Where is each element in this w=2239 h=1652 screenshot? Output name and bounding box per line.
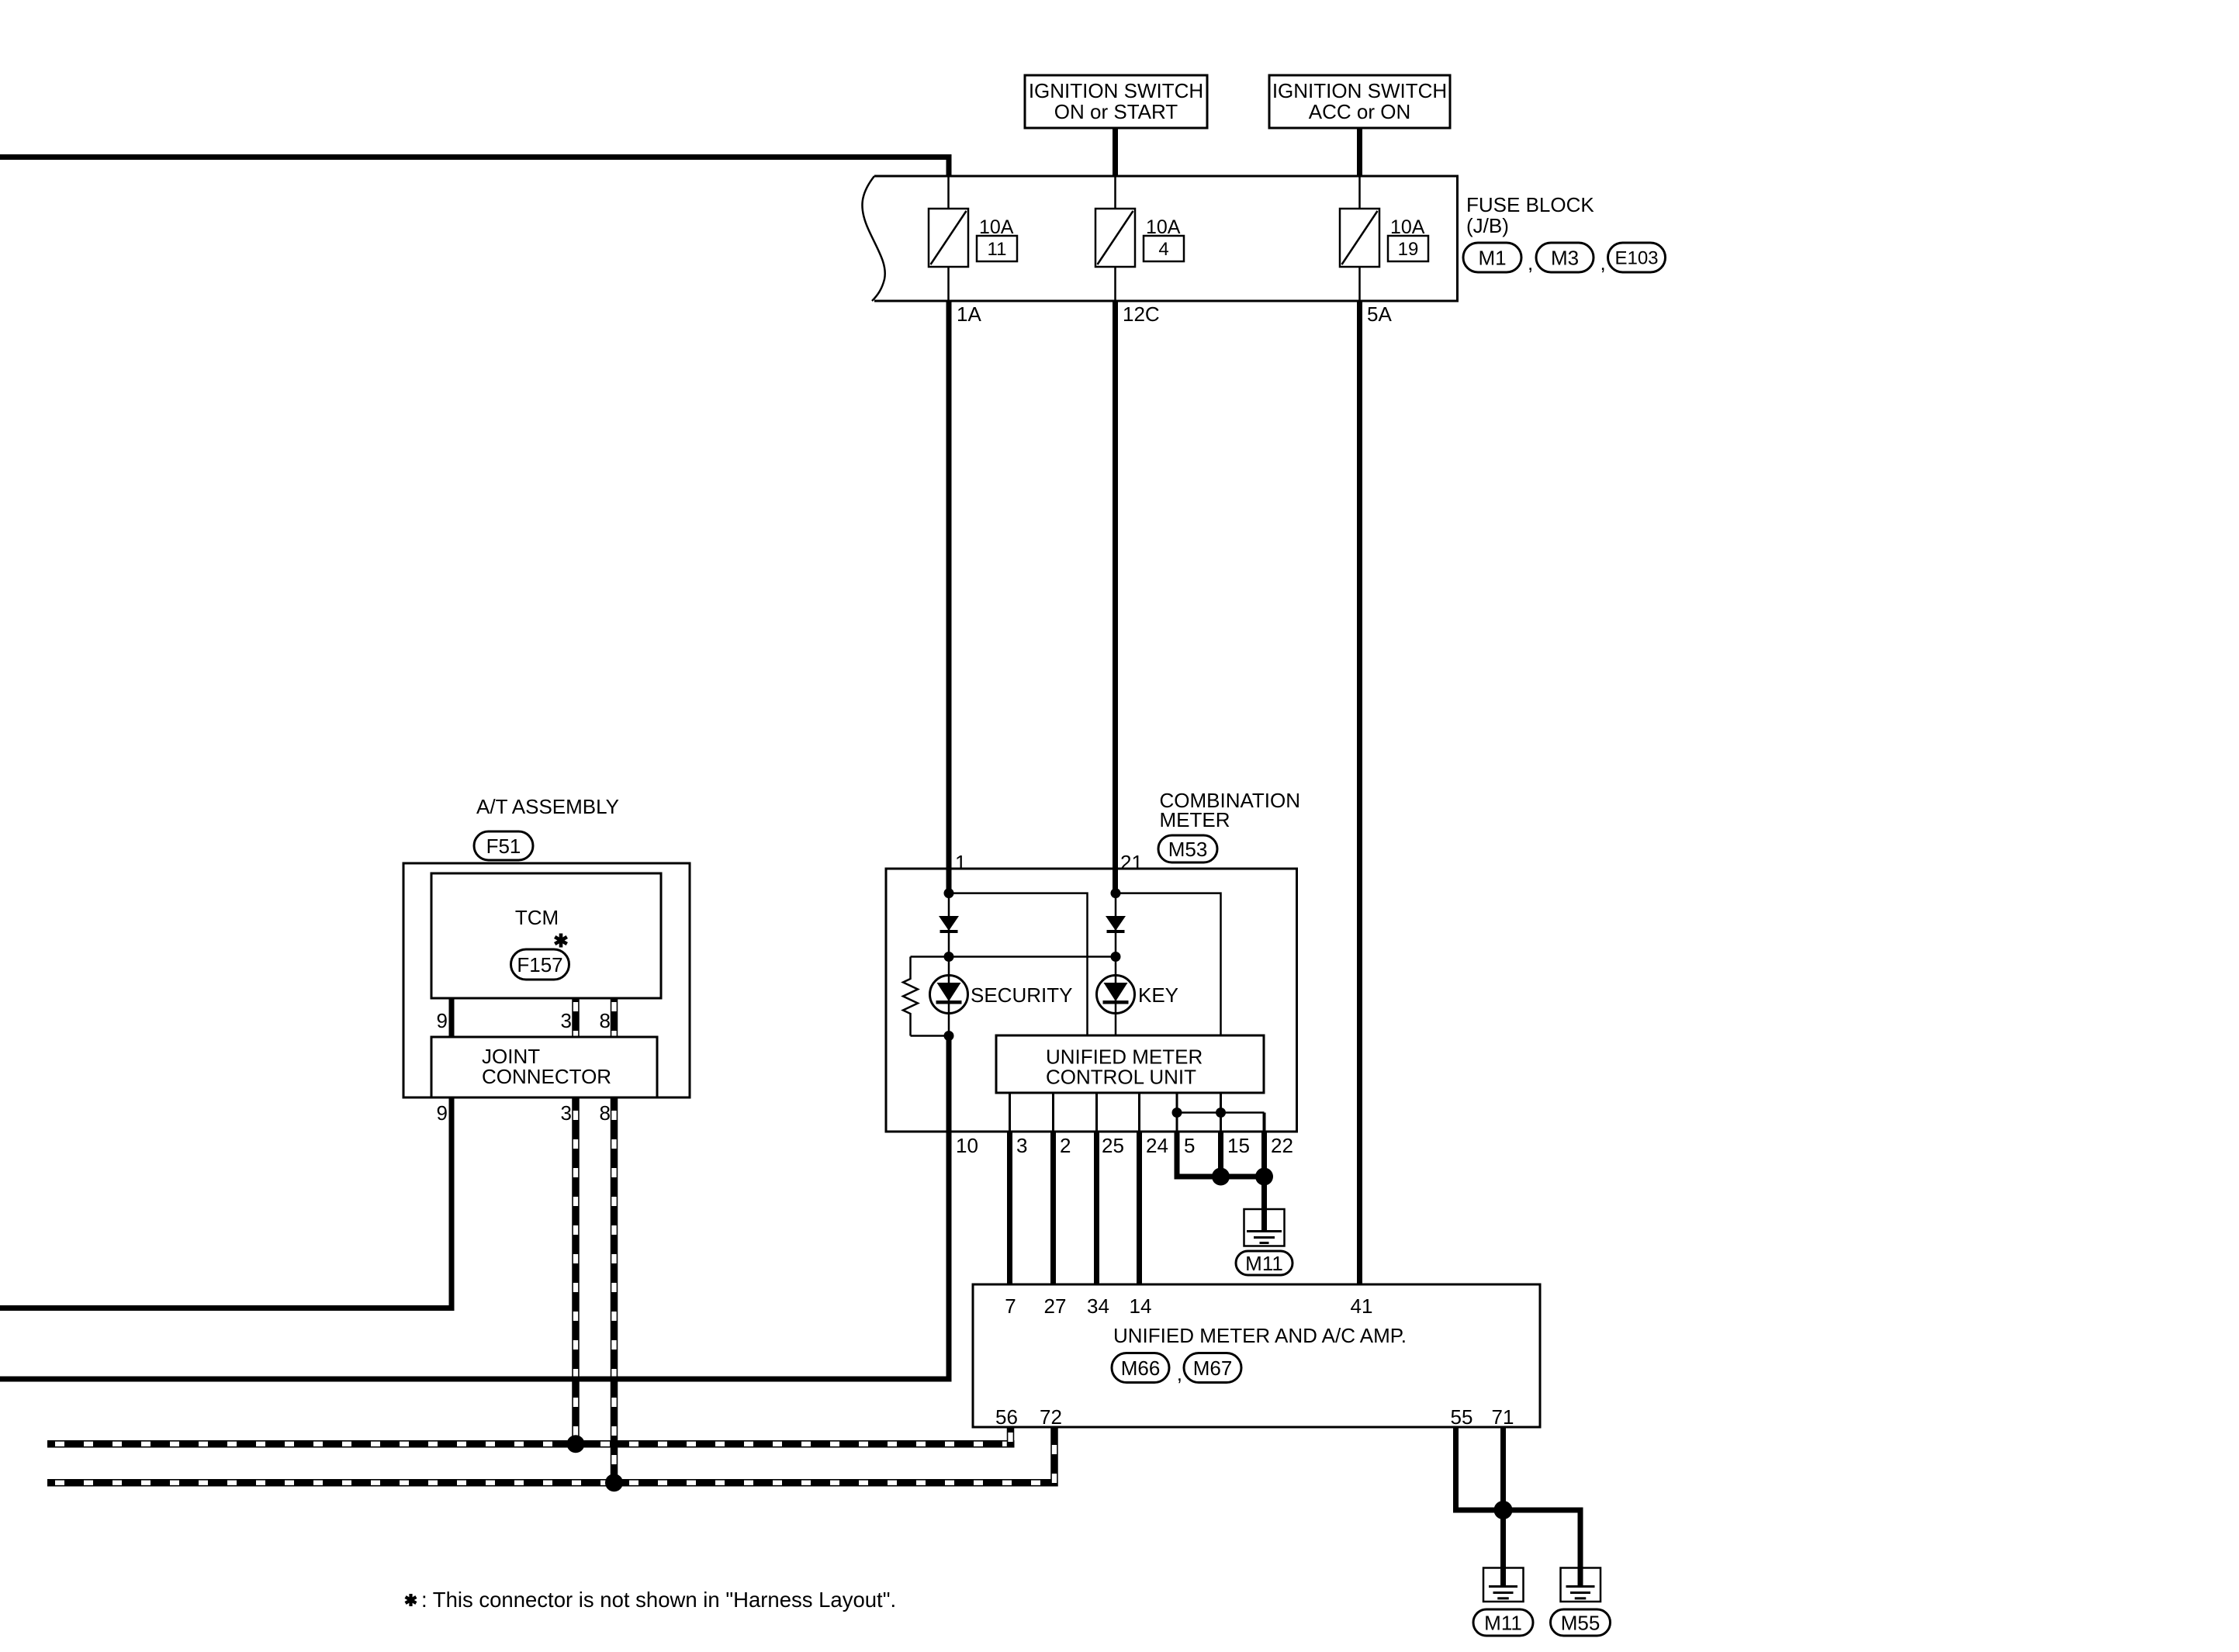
svg-text:M11: M11	[1245, 1252, 1283, 1275]
svg-text:M11: M11	[1484, 1611, 1522, 1634]
svg-text:9: 9	[437, 1101, 448, 1125]
connector M66	[1112, 1353, 1169, 1383]
ignition switch ACC or ON box	[1269, 75, 1450, 128]
ground connector M11 (meter)	[1236, 1251, 1293, 1275]
svg-text:5: 5	[1184, 1134, 1195, 1157]
wire 5A: fuse 19 to unified meter amp pin 41	[1357, 301, 1362, 1284]
ground symbol (meter)	[1244, 1209, 1285, 1246]
svg-text:TCM: TCM	[515, 906, 559, 929]
wire 10: meter pin 10 to left edge	[0, 1132, 952, 1382]
LED SECURITY	[930, 976, 968, 1014]
svg-text:: This connector is not shown: : This connector is not shown in "Harnes…	[421, 1588, 896, 1612]
svg-text:3: 3	[561, 1101, 572, 1125]
svg-text:IGNITION SWITCH: IGNITION SWITCH	[1272, 79, 1447, 102]
wire meter pin2 to amp pin27	[1050, 1132, 1056, 1284]
node: pin5 tap	[1172, 1108, 1182, 1118]
wire pin 56 stub (dashed)	[1007, 1427, 1015, 1448]
label COMBINATION METER	[1160, 789, 1301, 831]
svg-text:2: 2	[1060, 1134, 1071, 1157]
svg-text:METER: METER	[1160, 808, 1230, 831]
wire pin5 to ground bus	[1177, 1132, 1221, 1177]
wire: ground bus to ground M11	[1261, 1177, 1267, 1209]
svg-text:22: 22	[1271, 1134, 1293, 1157]
node: ground bus junction B	[1255, 1168, 1273, 1186]
node: security cathode junction	[944, 1031, 954, 1041]
node: key anode junction	[1111, 888, 1121, 898]
wire 8: joint connector to shield line (dashed)	[611, 1097, 618, 1479]
svg-text:71: 71	[1492, 1405, 1514, 1429]
wires: UMCU ground pins 5/15/22 inside meter	[1177, 1093, 1265, 1132]
node: ground junction (bottom)	[1494, 1501, 1513, 1519]
ground symbol M11 (bottom)	[1483, 1568, 1524, 1602]
svg-text:FUSE BLOCK: FUSE BLOCK	[1466, 193, 1594, 216]
svg-text:KEY: KEY	[1138, 983, 1178, 1007]
fuse 10A #19	[1340, 176, 1428, 301]
connector M67	[1184, 1353, 1241, 1383]
wire: ignition ACC/ON to fuse block	[1357, 128, 1362, 177]
svg-text:55: 55	[1451, 1405, 1473, 1429]
wire pin22 to ground bus	[1261, 1132, 1267, 1177]
svg-text:1A: 1A	[957, 302, 981, 326]
ground connector M11 (bottom)	[1473, 1609, 1533, 1636]
resistor R (security shunt)	[903, 957, 918, 1036]
svg-text:IGNITION SWITCH: IGNITION SWITCH	[1029, 79, 1203, 102]
svg-text:21: 21	[1120, 851, 1143, 874]
wires: UMCU pins 3/2/25/24 inside meter	[1010, 1093, 1140, 1132]
wire pin 71 to ground junction	[1500, 1427, 1506, 1510]
svg-text:8: 8	[600, 1101, 611, 1125]
note: asterisk	[406, 1594, 417, 1606]
svg-text:56: 56	[995, 1405, 1018, 1429]
svg-text:,: ,	[1177, 1362, 1182, 1385]
diode D2 (key)	[1106, 916, 1126, 933]
combination meter box	[886, 869, 1297, 1132]
connector M3	[1536, 243, 1594, 272]
node: security diode/led junction	[944, 952, 954, 962]
svg-text:9: 9	[437, 1009, 448, 1032]
wire pin 72 stub (dashed)	[1050, 1427, 1058, 1487]
svg-text:UNIFIED METER AND A/C AMP.: UNIFIED METER AND A/C AMP.	[1113, 1324, 1407, 1347]
TCM box	[431, 873, 661, 998]
wire ground bus A-B	[1221, 1174, 1265, 1180]
connector M1	[1463, 243, 1521, 272]
svg-text:3: 3	[1016, 1134, 1027, 1157]
wire meter pin25 to amp pin34	[1094, 1132, 1099, 1284]
A/T assembly box	[403, 863, 690, 1097]
svg-text:4: 4	[1158, 239, 1168, 260]
svg-text:8: 8	[600, 1009, 611, 1032]
svg-text:M53: M53	[1168, 838, 1208, 861]
wire 9: joint connector to left edge	[0, 1097, 455, 1311]
LED KEY	[1097, 976, 1135, 1014]
unified meter control unit box	[996, 1035, 1264, 1093]
svg-text:CONTROL UNIT: CONTROL UNIT	[1046, 1066, 1196, 1089]
svg-text:5A: 5A	[1367, 302, 1392, 326]
svg-text:M67: M67	[1193, 1357, 1233, 1380]
ignition switch ON or START box	[1025, 75, 1207, 128]
node: ground bus junction A	[1212, 1168, 1230, 1186]
svg-text:24: 24	[1146, 1134, 1168, 1157]
connector F51	[474, 831, 533, 860]
wire 3: joint connector to shield line (dashed)	[572, 1097, 580, 1440]
svg-text:F51: F51	[486, 835, 521, 858]
wire: ignition ON/START to fuse block	[1113, 128, 1118, 177]
node: pin15 tap	[1216, 1108, 1226, 1118]
node: key diode/led junction	[1111, 952, 1121, 962]
svg-text:E103: E103	[1614, 248, 1658, 269]
svg-text:CONNECTOR: CONNECTOR	[482, 1065, 611, 1088]
wire 1A: fuse 11 to combination meter pin 1	[946, 301, 952, 869]
wire: resistor bottom rail	[911, 1035, 950, 1037]
svg-text:10: 10	[956, 1134, 978, 1157]
asterisk for F157	[555, 934, 567, 948]
node: wire 3 to upper shield wire	[567, 1435, 585, 1453]
wire: resistor top rail	[911, 956, 1116, 958]
wire meter pin3 to amp pin7	[1007, 1132, 1012, 1284]
shield wire lower (dashed, to pin 72)	[47, 1479, 1058, 1487]
diode D1 (security)	[939, 916, 959, 933]
svg-text:72: 72	[1040, 1405, 1062, 1429]
svg-text:,: ,	[1601, 251, 1606, 275]
svg-text:F157: F157	[517, 953, 562, 976]
svg-text:M55: M55	[1561, 1611, 1601, 1634]
svg-text:1: 1	[955, 851, 966, 874]
unified meter and A/C amp box	[973, 1284, 1540, 1427]
wire: battery feed (thick, top-left to fuse 11)	[0, 154, 952, 177]
svg-text:SECURITY: SECURITY	[971, 983, 1072, 1007]
wire: junction to ground M11 (bottom)	[1500, 1510, 1506, 1568]
fuse block (J/B) outline with torn left edge	[874, 176, 1458, 301]
wire pin 55 to ground junction	[1456, 1427, 1581, 1568]
wire: security branch vertical	[948, 893, 950, 1036]
label FUSE BLOCK (J/B)	[1466, 193, 1594, 237]
svg-text:15: 15	[1227, 1134, 1250, 1157]
wire TCM pin 9 to joint connector	[449, 998, 455, 1037]
svg-text:ON or START: ON or START	[1054, 100, 1178, 123]
fuse 10A #4	[1095, 176, 1184, 301]
wire: security cathode to pin 10	[946, 1036, 952, 1132]
ground connector M55	[1551, 1609, 1611, 1636]
svg-text:41: 41	[1351, 1294, 1373, 1318]
svg-text:7: 7	[1005, 1294, 1016, 1318]
svg-text:M66: M66	[1121, 1357, 1161, 1380]
svg-text:25: 25	[1102, 1134, 1124, 1157]
connector M53	[1158, 835, 1217, 862]
fuse 10A #11	[929, 176, 1017, 301]
wire meter pin24 to amp pin14	[1137, 1132, 1142, 1284]
svg-text:M3: M3	[1551, 246, 1579, 269]
wire: key branch vertical	[1115, 893, 1117, 1035]
svg-text:19: 19	[1398, 239, 1419, 260]
svg-text:34: 34	[1087, 1294, 1109, 1318]
svg-text:M1: M1	[1478, 246, 1506, 269]
wire pin1 inside meter (thick stub)	[946, 869, 952, 893]
joint connector box	[431, 1037, 657, 1097]
connector E103	[1608, 243, 1666, 272]
node: wire 8 to lower shield wire	[605, 1474, 623, 1491]
svg-text:12C: 12C	[1123, 302, 1160, 326]
svg-text:ACC or ON: ACC or ON	[1309, 100, 1410, 123]
svg-text:(J/B): (J/B)	[1466, 214, 1509, 237]
wire: key junction to UMCU (right bypass)	[1116, 893, 1221, 1035]
wire pin21 inside meter (thick stub)	[1113, 869, 1118, 893]
wire 12C: fuse 4 to combination meter pin 21	[1113, 301, 1118, 869]
wire pin15 to ground bus	[1218, 1132, 1223, 1177]
shield wire upper (dashed, to pin 56)	[47, 1440, 1015, 1448]
node: security anode junction	[944, 888, 954, 898]
svg-text:14: 14	[1130, 1294, 1152, 1318]
wire TCM pin 3 to joint connector (dashed)	[572, 998, 580, 1037]
svg-text:,: ,	[1528, 251, 1533, 275]
svg-text:3: 3	[561, 1009, 572, 1032]
ground symbol M55	[1561, 1568, 1601, 1602]
svg-text:11: 11	[988, 239, 1007, 260]
svg-text:27: 27	[1044, 1294, 1067, 1318]
wire TCM pin 8 to joint connector (dashed)	[611, 998, 618, 1037]
connector F157	[511, 949, 569, 980]
wire: security junction to UMCU (left bypass)	[949, 893, 1088, 1035]
svg-text:A/T ASSEMBLY: A/T ASSEMBLY	[476, 795, 619, 818]
